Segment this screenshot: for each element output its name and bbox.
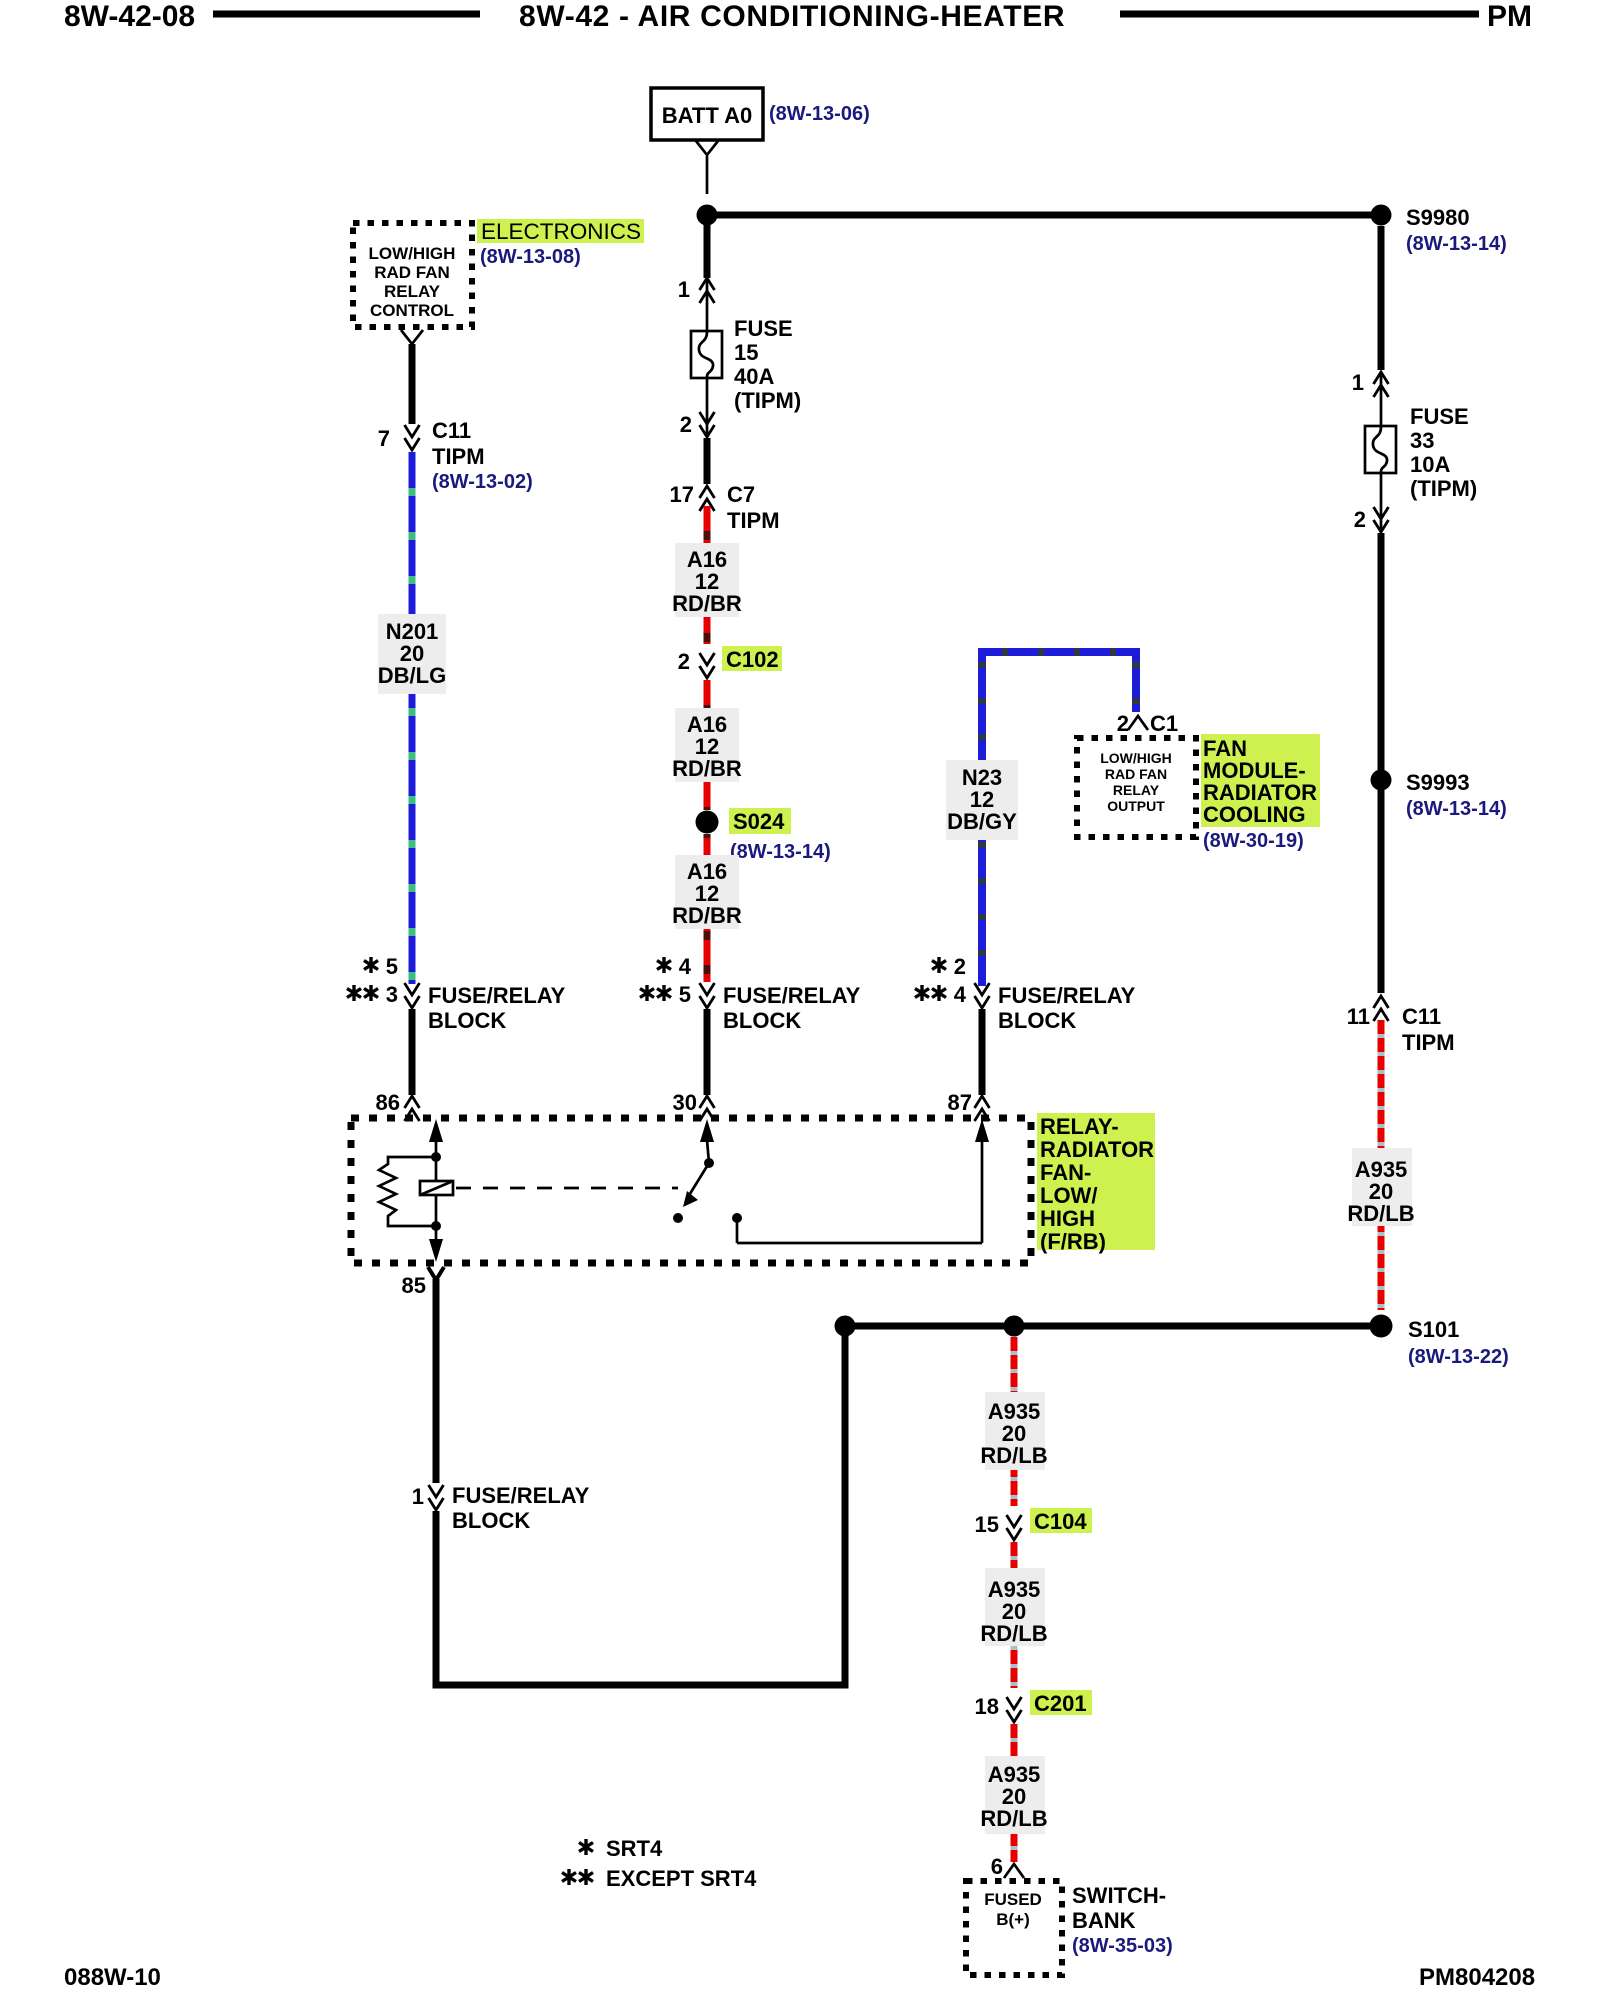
- svg-text:4: 4: [679, 954, 692, 979]
- wire label N23 12 DB/GY: [946, 760, 1018, 840]
- svg-text:1: 1: [412, 1484, 424, 1509]
- svg-text:CONTROL: CONTROL: [370, 301, 454, 320]
- svg-text:8W-42-08: 8W-42-08: [64, 0, 195, 33]
- svg-text:2: 2: [1117, 711, 1129, 736]
- svg-text:RAD FAN: RAD FAN: [1105, 766, 1167, 782]
- wire A16 12 RD/BR segment 1: [704, 506, 711, 644]
- svg-text:RD/BR: RD/BR: [672, 591, 742, 616]
- double asterisk 3 (except SRT4 pin): [347, 982, 398, 1007]
- svg-text:FUSE/RELAY: FUSE/RELAY: [452, 1483, 590, 1508]
- svg-text:2: 2: [680, 412, 692, 437]
- label FAN MODULE-RADIATOR COOLING highlighted: [1201, 734, 1320, 827]
- svg-text:(8W-30-19): (8W-30-19): [1203, 830, 1304, 852]
- svg-text:5: 5: [679, 982, 691, 1007]
- connector chevron pin 2 fuse 15: [700, 412, 715, 437]
- svg-text:S024: S024: [733, 809, 785, 834]
- wire BATT to junction: [706, 156, 709, 194]
- wire high contact to pin 87: [737, 1119, 989, 1243]
- svg-text:LOW/HIGH: LOW/HIGH: [369, 244, 456, 263]
- connector chevron pin 85: [428, 1267, 444, 1280]
- svg-text:B(+): B(+): [996, 1910, 1030, 1929]
- svg-text:RD/LB: RD/LB: [980, 1443, 1047, 1468]
- svg-text:LOW/: LOW/: [1040, 1183, 1097, 1208]
- svg-text:HIGH: HIGH: [1040, 1206, 1095, 1231]
- wire N201 20 DB/LG blue with green tracer: [409, 452, 416, 984]
- legend double asterisk EXCEPT SRT4: [562, 1866, 757, 1891]
- wire A16 12 RD/BR segment 3: [704, 834, 711, 982]
- svg-text:(8W-13-14): (8W-13-14): [730, 841, 831, 863]
- svg-text:30: 30: [673, 1090, 697, 1115]
- connector chevron pin 17 C7: [700, 486, 715, 511]
- wire S9993 to C11 pin 11: [1378, 790, 1385, 993]
- wire pin4 to relay pin 87: [979, 1009, 986, 1095]
- svg-text:OUTPUT: OUTPUT: [1107, 798, 1165, 814]
- svg-text:RADIATOR: RADIATOR: [1040, 1137, 1154, 1162]
- svg-text:SRT4: SRT4: [606, 1836, 663, 1861]
- svg-text:C7: C7: [727, 482, 755, 507]
- svg-text:86: 86: [376, 1090, 400, 1115]
- svg-text:(TIPM): (TIPM): [1410, 476, 1477, 501]
- resistor in relay: [379, 1157, 436, 1226]
- fuse F33 body: [1365, 426, 1396, 473]
- double asterisk 4 (except SRT4 pin): [915, 982, 967, 1007]
- svg-text:BLOCK: BLOCK: [428, 1008, 506, 1033]
- svg-text:(8W-13-14): (8W-13-14): [1406, 233, 1507, 255]
- connector chevron pin 6: [1004, 1864, 1024, 1878]
- svg-text:17: 17: [670, 482, 694, 507]
- svg-text:RELAY: RELAY: [384, 282, 441, 301]
- svg-text:(8W-13-06): (8W-13-06): [769, 103, 870, 125]
- wire A935 20 RD/LB right column: [1378, 1020, 1385, 1310]
- relay switch blade to low contact: [683, 1163, 709, 1207]
- header rule left: [213, 11, 480, 18]
- svg-text:RD/BR: RD/BR: [672, 903, 742, 928]
- header rule right: [1120, 11, 1479, 18]
- svg-text:088W-10: 088W-10: [64, 1964, 161, 1991]
- wire A935 20 RD/LB bottom segment 2: [1011, 1542, 1018, 1688]
- svg-text:S101: S101: [1408, 1317, 1459, 1342]
- node junction at top bus: [697, 205, 718, 226]
- wire label A935 20 RD/LB middle: [980, 1568, 1047, 1646]
- splice S9993: [1371, 770, 1392, 791]
- label S024 highlighted: [729, 808, 791, 834]
- wire ground run elbow to S101: [436, 1336, 845, 1685]
- relay coil branch vertical line pin 86 to 85: [429, 1119, 443, 1262]
- double asterisk 5 (except SRT4 pin): [640, 982, 691, 1007]
- label ELECTRONICS highlighted: [477, 219, 644, 244]
- connector chevron pin 1 bottom: [429, 1485, 444, 1510]
- wire top bus to S9980: [707, 212, 1381, 219]
- connector chevron pin 1 fuse 15: [700, 278, 715, 303]
- svg-text:RD/LB: RD/LB: [980, 1621, 1047, 1646]
- relay actuation dashed link: [456, 1187, 678, 1190]
- node coil bottom: [431, 1221, 441, 1231]
- wire junction to fuse 15 pin 1: [704, 225, 711, 278]
- asterisk 2 (SRT4 pin): [932, 954, 966, 979]
- connector chevron pin 87: [975, 1096, 990, 1121]
- svg-text:1: 1: [1352, 370, 1364, 395]
- legend asterisk SRT4: [579, 1836, 663, 1861]
- svg-text:PM: PM: [1487, 0, 1532, 33]
- svg-text:C104: C104: [1034, 1509, 1087, 1534]
- svg-text:BLOCK: BLOCK: [998, 1008, 1076, 1033]
- wire S9980 to fuse 33 pin 1: [1378, 226, 1385, 370]
- connector chevron pin 2 fuse 33: [1374, 507, 1389, 532]
- svg-text:8W-42 - AIR CONDITIONING-HEATE: 8W-42 - AIR CONDITIONING-HEATER: [519, 0, 1065, 33]
- svg-text:(8W-13-08): (8W-13-08): [480, 246, 581, 268]
- connector chevron pin 7 C11: [405, 425, 420, 450]
- svg-text:RD/LB: RD/LB: [980, 1806, 1047, 1831]
- node switch pivot: [704, 1158, 714, 1168]
- module box LOW/HIGH RAD FAN RELAY OUTPUT: [1077, 738, 1196, 837]
- svg-text:2: 2: [1354, 507, 1366, 532]
- relay coil symbol: [420, 1181, 453, 1195]
- svg-text:LOW/HIGH: LOW/HIGH: [1100, 750, 1172, 766]
- svg-text:2: 2: [954, 954, 966, 979]
- node low contact: [673, 1213, 683, 1223]
- svg-text:BATT A0: BATT A0: [662, 103, 752, 128]
- svg-text:4: 4: [954, 982, 967, 1007]
- svg-text:S9980: S9980: [1406, 205, 1470, 230]
- svg-text:COOLING: COOLING: [1203, 802, 1306, 827]
- svg-text:BANK: BANK: [1072, 1908, 1136, 1933]
- svg-text:RAD FAN: RAD FAN: [374, 263, 450, 282]
- wire label A16 12 RD/BR middle: [672, 708, 742, 782]
- svg-text:(8W-13-02): (8W-13-02): [432, 471, 533, 493]
- svg-text:FAN-: FAN-: [1040, 1160, 1091, 1185]
- svg-text:TIPM: TIPM: [1402, 1030, 1455, 1055]
- svg-text:2: 2: [678, 649, 690, 674]
- wire fuse 15 to pin 2: [706, 378, 709, 436]
- svg-text:RD/LB: RD/LB: [1347, 1201, 1414, 1226]
- svg-text:10A: 10A: [1410, 452, 1450, 477]
- svg-text:FUSED: FUSED: [984, 1890, 1042, 1909]
- wire A935 20 RD/LB bottom segment 1: [1011, 1337, 1018, 1506]
- svg-text:RELAY: RELAY: [1113, 782, 1160, 798]
- svg-text:PM804208: PM804208: [1419, 1964, 1535, 1991]
- svg-text:85: 85: [402, 1273, 426, 1298]
- svg-text:5: 5: [386, 954, 398, 979]
- svg-text:FUSE: FUSE: [734, 316, 793, 341]
- wire electronics box to pin 7: [409, 344, 416, 424]
- wire pin3 to relay pin 86: [409, 1009, 416, 1095]
- connector chevron C1: [1128, 716, 1148, 730]
- svg-text:C201: C201: [1034, 1691, 1087, 1716]
- wire fuse 33 to pin 2: [1380, 473, 1383, 531]
- svg-text:(TIPM): (TIPM): [734, 388, 801, 413]
- wire into fuse 15: [706, 279, 709, 332]
- wire fuse 33 to S9993: [1378, 533, 1385, 770]
- svg-text:C11: C11: [432, 418, 471, 443]
- svg-text:C102: C102: [726, 647, 779, 672]
- wire fuse 15 to connector C7: [704, 438, 711, 484]
- svg-text:RELAY-: RELAY-: [1040, 1114, 1119, 1139]
- relay common arm from pin 30: [700, 1119, 714, 1163]
- splice S024: [696, 811, 719, 834]
- svg-text:BLOCK: BLOCK: [723, 1008, 801, 1033]
- node coil top: [431, 1152, 441, 1162]
- connector chevron pin 30: [700, 1096, 715, 1121]
- svg-text:(F/RB): (F/RB): [1040, 1229, 1106, 1254]
- svg-text:40A: 40A: [734, 364, 774, 389]
- svg-text:6: 6: [991, 1854, 1003, 1879]
- svg-text:S9993: S9993: [1406, 770, 1470, 795]
- svg-text:BLOCK: BLOCK: [452, 1508, 530, 1533]
- svg-text:FUSE/RELAY: FUSE/RELAY: [428, 983, 566, 1008]
- svg-text:7: 7: [378, 426, 390, 451]
- svg-text:3: 3: [386, 982, 398, 1007]
- svg-text:FUSE/RELAY: FUSE/RELAY: [998, 983, 1136, 1008]
- connector chevron into fuse/relay block pin 3: [405, 983, 420, 1008]
- svg-text:C11: C11: [1402, 1004, 1441, 1029]
- svg-text:C1: C1: [1150, 711, 1178, 736]
- svg-text:FUSE/RELAY: FUSE/RELAY: [723, 983, 861, 1008]
- svg-text:DB/GY: DB/GY: [947, 809, 1017, 834]
- wire N23 12 DB/GY blue elbow: [982, 652, 1136, 986]
- label C201 highlighted: [1030, 1690, 1092, 1716]
- node S101 bus left: [835, 1316, 856, 1337]
- wire label A935 20 RD/LB lower: [980, 1756, 1047, 1834]
- svg-text:33: 33: [1410, 428, 1434, 453]
- connector chevron pin 1 fuse 33: [1374, 372, 1389, 397]
- wire label A935 20 RD/LB upper: [980, 1392, 1047, 1470]
- connector chevron below electronics box: [401, 330, 423, 344]
- wire label N201 20 DB/LG: [378, 614, 446, 694]
- battery feed BATT A0 box: [651, 88, 763, 140]
- connector chevron C201: [1007, 1697, 1022, 1722]
- fuse F15 body: [691, 331, 722, 378]
- connector chevron below BATT box: [696, 141, 718, 155]
- wire pin5 to relay pin 30: [704, 1009, 711, 1095]
- svg-text:TIPM: TIPM: [432, 444, 485, 469]
- label C104 highlighted: [1030, 1508, 1092, 1534]
- wire label A16 12 RD/BR upper: [672, 543, 742, 617]
- svg-text:FUSE: FUSE: [1410, 404, 1469, 429]
- wire label A16 12 RD/BR lower: [672, 855, 742, 929]
- node S101 bus middle: [1004, 1316, 1025, 1337]
- label C102 highlighted: [722, 646, 782, 672]
- connector chevron pin 86: [405, 1096, 420, 1121]
- relay box RELAY-RADIATOR FAN-LOW/HIGH dashed: [351, 1118, 1031, 1263]
- module box FUSED B(+): [966, 1881, 1062, 1975]
- svg-text:RD/BR: RD/BR: [672, 756, 742, 781]
- svg-text:TIPM: TIPM: [727, 508, 780, 533]
- svg-text:DB/LG: DB/LG: [378, 663, 446, 688]
- svg-text:87: 87: [948, 1090, 972, 1115]
- svg-text:(8W-35-03): (8W-35-03): [1072, 1935, 1173, 1957]
- wire pin 85 to pin 1: [433, 1279, 440, 1483]
- svg-text:15: 15: [975, 1512, 999, 1537]
- connector chevron into fuse/relay block pin 5: [700, 983, 715, 1008]
- connector chevron C102: [700, 653, 715, 678]
- wire A16 12 RD/BR segment 2: [704, 680, 711, 810]
- module box LOW/HIGH RAD FAN RELAY CONTROL: [353, 223, 472, 327]
- asterisk 5 (SRT4 pin): [364, 954, 398, 979]
- wire A935 20 RD/LB bottom segment 3: [1011, 1724, 1018, 1862]
- connector chevron C104: [1007, 1515, 1022, 1540]
- svg-text:(8W-13-22): (8W-13-22): [1408, 1346, 1509, 1368]
- svg-text:18: 18: [975, 1694, 999, 1719]
- wire into fuse 33: [1380, 373, 1383, 427]
- svg-text:(8W-13-14): (8W-13-14): [1406, 798, 1507, 820]
- svg-text:15: 15: [734, 340, 758, 365]
- asterisk 4 (SRT4 pin): [657, 954, 692, 979]
- splice S101: [1370, 1315, 1393, 1338]
- node high contact: [732, 1213, 742, 1223]
- svg-text:11: 11: [1347, 1004, 1370, 1029]
- wire label A935 20 RD/LB right: [1347, 1148, 1414, 1226]
- splice S9980: [1371, 205, 1392, 226]
- svg-text:ELECTRONICS: ELECTRONICS: [481, 219, 641, 244]
- svg-text:SWITCH-: SWITCH-: [1072, 1883, 1166, 1908]
- svg-text:EXCEPT SRT4: EXCEPT SRT4: [606, 1866, 757, 1891]
- connector chevron into fuse/relay block pin 4: [975, 983, 990, 1008]
- connector chevron pin 11 C11: [1374, 996, 1389, 1021]
- label RELAY-RADIATOR FAN-LOW/HIGH (F/RB) highlighted: [1037, 1113, 1155, 1254]
- svg-text:1: 1: [678, 277, 690, 302]
- wire S101 bus: [845, 1323, 1381, 1330]
